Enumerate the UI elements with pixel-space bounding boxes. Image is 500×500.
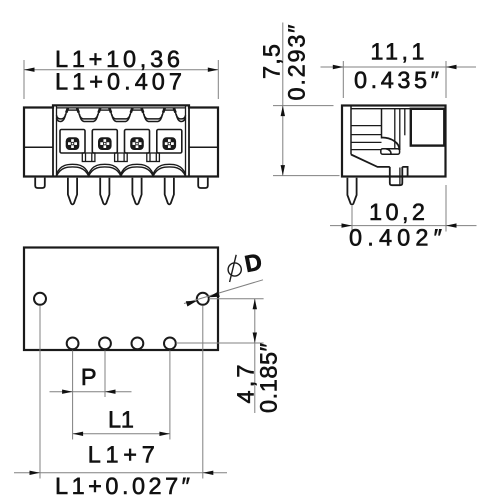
svg-text:L1+0.407: L1+0.407 xyxy=(55,69,182,95)
svg-text:11,1: 11,1 xyxy=(370,39,424,65)
svg-text:P: P xyxy=(81,364,97,390)
svg-text:0.435″: 0.435″ xyxy=(354,67,439,93)
svg-text:7,5: 7,5 xyxy=(259,44,285,79)
svg-text:0.185″: 0.185″ xyxy=(256,343,282,413)
svg-text:L1: L1 xyxy=(108,407,134,433)
svg-text:L1+0.027″: L1+0.027″ xyxy=(55,473,190,499)
svg-text:0.293″: 0.293″ xyxy=(284,25,310,101)
svg-text:10,2: 10,2 xyxy=(369,199,425,225)
